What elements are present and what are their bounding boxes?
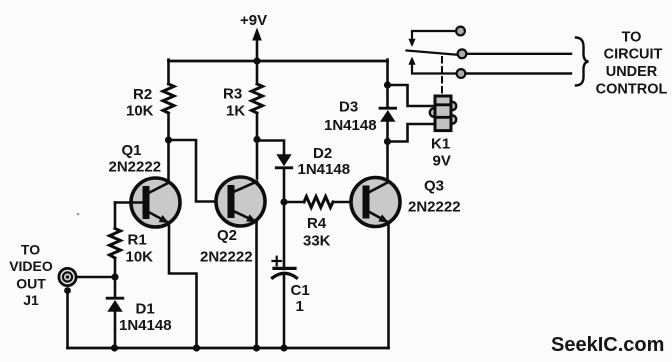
svg-text:9V: 9V bbox=[433, 153, 451, 170]
wire: Q2 collector riser bbox=[256, 140, 259, 179]
svg-text:K1: K1 bbox=[431, 136, 450, 153]
svg-text:VIDEO: VIDEO bbox=[9, 258, 53, 274]
brace to circuit under control bbox=[576, 38, 589, 86]
wire: node D to D1 anode bbox=[114, 277, 117, 297]
junction node D: R1 / D1 / jack J1 bbox=[111, 273, 118, 280]
diode D2 1N4148 bbox=[276, 145, 350, 178]
wire: rail to R2 top bbox=[167, 60, 170, 84]
svg-text:Q1: Q1 bbox=[122, 142, 142, 159]
svg-text:UNDER: UNDER bbox=[606, 64, 658, 80]
svg-text:Q2: Q2 bbox=[217, 227, 237, 244]
wire: NC terminal arm with arrow bbox=[408, 31, 456, 47]
resistor R2 bbox=[126, 84, 174, 120]
wire: jack shell to ground rail bbox=[66, 291, 69, 349]
svg-text:D1: D1 bbox=[136, 301, 155, 318]
relay contact: common armature blade bbox=[407, 51, 458, 55]
relay contact: NO terminal bbox=[457, 69, 466, 78]
svg-text:TO: TO bbox=[622, 30, 642, 46]
wire: NO contact to circuit under control bbox=[466, 72, 572, 74]
resistor R4 bbox=[284, 197, 333, 250]
svg-text:2N2222: 2N2222 bbox=[408, 199, 461, 216]
wire: Q1 base down to R1 bbox=[114, 203, 117, 229]
junction: +9V rail / R3 top bbox=[253, 57, 260, 64]
wire: D1 to ground rail bbox=[114, 312, 117, 348]
svg-text:R1: R1 bbox=[128, 232, 147, 249]
svg-text:1N4148: 1N4148 bbox=[298, 161, 351, 178]
svg-text:R3: R3 bbox=[223, 86, 242, 103]
svg-text:TO: TO bbox=[21, 242, 40, 258]
transistor Q2 2N2222 bbox=[200, 177, 265, 266]
wire: R1 bottom to node D bbox=[114, 258, 117, 277]
junction node C: D2 / R4 / C1 bbox=[280, 198, 287, 205]
junction: C1 to ground rail bbox=[280, 344, 287, 351]
wire: R4 to Q3 base bbox=[333, 201, 364, 204]
svg-text:1N4148: 1N4148 bbox=[119, 317, 172, 334]
svg-text:10K: 10K bbox=[126, 249, 154, 266]
svg-text:1N4148: 1N4148 bbox=[324, 117, 377, 134]
svg-text:D3: D3 bbox=[339, 99, 358, 116]
junction: jack shell terminal bbox=[64, 287, 71, 294]
junction node F: D3 / relay coil bottom / Q3 collector bbox=[384, 138, 391, 145]
svg-text:SeekIC.com: SeekIC.com bbox=[551, 334, 664, 356]
junction node A: R2 / Q1 collector / wire to Q2 base bbox=[165, 136, 172, 143]
wire: rail right end down to node E bbox=[386, 60, 389, 85]
relay coil K1 9V bbox=[430, 96, 456, 170]
connector J1 (RCA jack) bbox=[59, 268, 76, 285]
svg-text:CONTROL: CONTROL bbox=[596, 82, 668, 98]
wire: relay actuator dashed link bbox=[441, 57, 443, 95]
wire: Q1 base lead bbox=[115, 201, 143, 204]
svg-text:1: 1 bbox=[296, 298, 304, 315]
wire: D3 anode down to node F bbox=[386, 122, 389, 142]
svg-text:Q3: Q3 bbox=[424, 178, 444, 195]
wire: R3 bottom to node B bbox=[256, 113, 259, 140]
svg-text:2N2222: 2N2222 bbox=[109, 159, 162, 176]
wire: jack to node D bbox=[76, 276, 115, 279]
resistor R3 bbox=[223, 84, 263, 120]
wire: node E to D3 bbox=[386, 85, 389, 107]
transistor Q1 2N2222 bbox=[109, 142, 181, 227]
relay contact: common terminal bbox=[458, 49, 467, 58]
wire: Q2 emitter to ground rail bbox=[255, 222, 258, 348]
wire: relay coil bottom terminal to node F bbox=[388, 124, 435, 142]
wire: rail to R3 top bbox=[256, 61, 259, 84]
junction: Q2 emitter at ground rail bbox=[253, 344, 260, 351]
svg-text:+9V: +9V bbox=[240, 12, 267, 29]
svg-text:10K: 10K bbox=[126, 103, 154, 120]
wire: common contact to circuit under control bbox=[467, 53, 572, 55]
wire: node A to Q2 base bbox=[169, 140, 229, 202]
wire: NO terminal arm with arrow bbox=[408, 57, 456, 74]
wire: node F to Q3 collector bbox=[386, 142, 389, 180]
wire: ground rail bbox=[68, 347, 389, 350]
svg-text:CIRCUIT: CIRCUIT bbox=[604, 47, 663, 63]
svg-text:D2: D2 bbox=[313, 145, 332, 162]
label: TO CIRCUIT UNDER CONTROL bbox=[596, 30, 668, 98]
svg-text:J1: J1 bbox=[23, 292, 39, 308]
resistor R1 bbox=[110, 229, 154, 266]
junction: D1 at ground rail bbox=[111, 344, 118, 351]
wire: Q1 collector riser bbox=[167, 140, 170, 179]
svg-text:1K: 1K bbox=[226, 103, 245, 120]
wire: D2 cathode down to node C bbox=[283, 168, 286, 202]
junction node E: D3 cathode / relay coil top bbox=[384, 81, 391, 88]
wire: node E to relay coil top terminal bbox=[388, 85, 435, 106]
svg-text:R2: R2 bbox=[133, 86, 152, 103]
svg-text:33K: 33K bbox=[303, 233, 331, 250]
relay contact: NC terminal bbox=[456, 27, 465, 36]
svg-text:OUT: OUT bbox=[16, 276, 46, 292]
svg-text:C1: C1 bbox=[291, 282, 310, 299]
junction node B: R3 / Q2 collector / wire to D2 bbox=[253, 136, 260, 143]
diode D3 1N4148 bbox=[324, 99, 396, 135]
power +9V symbol bbox=[240, 12, 267, 61]
capacitor C1 bbox=[273, 202, 310, 348]
wire: node B to D2 anode bbox=[257, 141, 284, 155]
svg-text:R4: R4 bbox=[307, 215, 327, 232]
svg-text:2N2222: 2N2222 bbox=[200, 249, 253, 266]
label: TO VIDEO OUT J1 bbox=[9, 242, 53, 309]
wire: Q3 emitter to ground rail bbox=[387, 223, 390, 349]
transistor Q3 2N2222 bbox=[351, 178, 461, 227]
wire: Q1 emitter to ground rail bbox=[169, 223, 197, 348]
speck artifact bbox=[77, 213, 80, 216]
wire: R2 bottom to node A bbox=[167, 113, 170, 140]
wire: top +9V rail bbox=[169, 60, 388, 63]
junction: Q1 emitter at ground rail bbox=[193, 344, 200, 351]
diode D1 1N4148 bbox=[107, 298, 171, 334]
